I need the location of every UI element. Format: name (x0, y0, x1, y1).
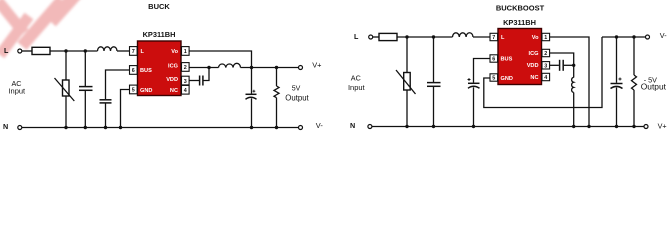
pin 2 (ICG) (182, 63, 190, 72)
svg-text:V+: V+ (312, 61, 321, 70)
junction dot X-cap top (right) (432, 35, 435, 38)
terminal N (right) (368, 125, 372, 129)
resistor R-LOAD2 (5V output right) (632, 37, 637, 127)
label N (neutral input right) (350, 121, 355, 130)
junction dot varistor bottom (right) (405, 125, 408, 128)
wire C-VDD to ICG node (204, 68, 210, 81)
svg-text:L: L (354, 32, 359, 41)
svg-text:V-: V- (316, 121, 324, 130)
capacitor C-BUS2 (electrolytic) (468, 78, 480, 127)
svg-text:1: 1 (184, 49, 187, 55)
svg-text:BUS: BUS (501, 57, 513, 63)
title BUCK (148, 2, 170, 11)
pin 5 (GND) U2 (490, 74, 498, 82)
inductor L3 (input filter) (453, 33, 474, 37)
svg-text:Vo: Vo (532, 35, 539, 41)
wire L terminal to fuse (22, 50, 32, 52)
svg-text:KP311BH: KP311BH (143, 30, 176, 39)
wire N rail (bottom right) (372, 126, 644, 128)
label V- (right) (660, 31, 667, 40)
terminal L (18, 49, 22, 53)
junction dot CX1 bottom (84, 126, 87, 129)
wire ICG pin to VDD node (right) (550, 53, 574, 65)
capacitor C-BUS (100, 100, 112, 128)
svg-text:GND: GND (501, 76, 513, 82)
watermark (pink diagonal logo, top-left) (0, 0, 78, 55)
junction dot output node (250, 66, 253, 69)
svg-text:ICG: ICG (168, 64, 178, 70)
svg-text:N: N (350, 121, 355, 130)
junction dot C-BUS bottom (104, 126, 107, 129)
svg-text:ICG: ICG (529, 51, 539, 57)
label KP311BH (U1) (143, 30, 176, 39)
op-amp U2 KP311BH body (498, 29, 542, 85)
pin 7 (L) U2 (490, 33, 498, 41)
capacitor CX1 (input cap) (79, 51, 93, 128)
pin 3 (VDD) U2 (542, 62, 550, 70)
svg-text:7: 7 (492, 35, 495, 41)
label - 5V Output (right) (641, 75, 667, 91)
svg-text:1: 1 (544, 35, 547, 41)
wire Vo pin down to V+ rail (right) (550, 37, 589, 127)
svg-text:7: 7 (132, 49, 135, 55)
svg-text:Input: Input (8, 87, 26, 96)
wire GND pin to V- return (right) (484, 37, 602, 108)
svg-text:VDD: VDD (527, 63, 539, 69)
svg-text:Vo: Vo (171, 49, 178, 55)
terminal V+ (right bottom) (644, 125, 648, 129)
wire fuse to inductor L1 (50, 50, 98, 52)
svg-text:5: 5 (132, 88, 135, 94)
junction dot R-LOAD2 bottom (632, 125, 635, 128)
varistor RV1 (55, 51, 75, 128)
wire VDD pin to C-VDD (189, 80, 199, 82)
svg-text:BUCKBOOST: BUCKBOOST (496, 4, 545, 13)
wire V- top rail (right) (602, 36, 646, 38)
svg-text:Output: Output (285, 93, 309, 102)
pin 1 (Vo) U2 (542, 33, 550, 41)
label N (neutral input) (3, 122, 8, 131)
wire C-VDD2 to ICG node (564, 64, 574, 66)
svg-text:L: L (501, 35, 505, 41)
capacitor C-VDD2 (560, 60, 564, 71)
svg-text:4: 4 (184, 88, 187, 94)
svg-text:4: 4 (544, 75, 547, 81)
varistor RV2 (396, 37, 416, 127)
junction dot ICG/VDD node (207, 66, 210, 69)
junction dot X-cap top (84, 49, 87, 52)
svg-text:N: N (3, 122, 8, 131)
svg-text:GND: GND (140, 88, 152, 94)
svg-text:BUS: BUS (140, 68, 152, 74)
svg-text:2: 2 (184, 65, 187, 71)
capacitor C-OUT (electrolytic) (246, 68, 257, 128)
junction dot Vo bottom (587, 125, 590, 128)
svg-text:Input: Input (348, 83, 366, 92)
svg-text:KP311BH: KP311BH (503, 18, 536, 27)
capacitor C-OUT2 (electrolytic) (611, 37, 623, 127)
inductor L2 (output) (219, 63, 241, 67)
svg-text:2: 2 (544, 51, 547, 57)
resistor R-LOAD (5V output) (274, 68, 279, 128)
wire fuse to inductor L3 (397, 36, 453, 38)
label AC Input (right) (348, 73, 366, 92)
pin 2 (ICG) U2 (542, 49, 550, 57)
pin 3 (VDD) (182, 76, 190, 85)
svg-text:V+: V+ (658, 122, 667, 131)
svg-text:NC: NC (170, 88, 178, 94)
svg-text:NC: NC (530, 75, 538, 81)
label L (line input, right) (354, 32, 359, 41)
label V+ (right) (658, 122, 667, 131)
wire BUS pin to C-BUS2 (474, 59, 491, 83)
terminal L (right) (369, 35, 373, 39)
wire BUS pin to bus cap (106, 70, 130, 99)
terminal V+ (BUCK output) (299, 66, 303, 70)
pin 6 (BUS) U2 (490, 55, 498, 63)
svg-text:5: 5 (492, 76, 495, 82)
junction dot R-LOAD bottom (275, 126, 278, 129)
label KP311BH (U2) (503, 18, 536, 27)
fuse F1 (32, 47, 50, 54)
junction dot C-OUT bottom (250, 126, 253, 129)
pin 7 (L) (130, 47, 138, 56)
wire Vo pin to output node (189, 51, 251, 68)
op-amp U1 KP311BH body (138, 41, 182, 96)
svg-text:V-: V- (660, 31, 667, 40)
pin 4 (NC) (182, 85, 190, 94)
terminal N (18, 126, 22, 130)
inductor L1 (input filter) (98, 47, 118, 51)
U1 pin name labels (140, 49, 179, 94)
svg-text:L: L (4, 46, 9, 55)
wire inductor L1 to pin 7 (117, 50, 130, 52)
capacitor C-VDD (200, 76, 203, 86)
svg-text:AC: AC (351, 73, 361, 82)
junction dot varistor top (64, 49, 67, 52)
label 5V Output (285, 86, 309, 103)
junction dot CX2 bottom (432, 125, 435, 128)
junction dot L4 bottom (572, 125, 575, 128)
wire GND pin down to N rail (121, 90, 130, 128)
wire L2 to V+ terminal (241, 67, 299, 69)
svg-text:Output: Output (641, 82, 667, 92)
junction dot load top (275, 66, 278, 69)
svg-text:6: 6 (132, 68, 135, 74)
label V- (316, 121, 324, 130)
wire inductor L3 to pin 7 (right) (473, 36, 490, 38)
label AC Input (left) (8, 79, 26, 96)
junction dot C-OUT2 top (615, 35, 618, 38)
svg-text:5V: 5V (292, 86, 301, 93)
junction dot C-BUS2 bottom (472, 125, 475, 128)
wire L terminal to fuse (right) (373, 36, 379, 38)
svg-text:6: 6 (492, 57, 495, 63)
svg-text:L: L (141, 49, 145, 55)
wire N rail (bottom) (22, 127, 299, 129)
capacitor CX2 (input cap right) (427, 37, 441, 127)
pin 4 (NC) U2 (542, 73, 550, 81)
junction dot C-OUT2 bottom (615, 125, 618, 128)
wire VDD pin to C-VDD2 (550, 64, 559, 66)
U2 pin name labels (501, 35, 540, 82)
terminal V- (right top) (646, 35, 650, 39)
junction dot GND wire bottom (119, 126, 122, 129)
junction dot varistor bottom (64, 126, 67, 129)
svg-text:BUCK: BUCK (148, 2, 170, 11)
svg-text:3: 3 (184, 79, 187, 85)
title BUCKBOOST (496, 4, 545, 13)
svg-text:VDD: VDD (166, 77, 178, 83)
junction dot ICG/VDD node (right) (572, 64, 575, 67)
label L (line input) (4, 46, 9, 55)
junction dot R-LOAD2 top (632, 35, 635, 38)
label V+ (312, 61, 321, 70)
terminal V- (BUCK output return) (299, 126, 303, 130)
svg-text:3: 3 (544, 63, 547, 69)
junction dot varistor top (right) (405, 35, 408, 38)
inductor L4 (vertical) (572, 65, 574, 126)
wire ICG pin to inductor L2 (189, 67, 218, 69)
pin 5 (GND) (130, 85, 138, 94)
pin 1 (Vo) (182, 47, 190, 56)
pin 6 (BUS) (130, 66, 138, 75)
fuse F2 (379, 33, 397, 40)
